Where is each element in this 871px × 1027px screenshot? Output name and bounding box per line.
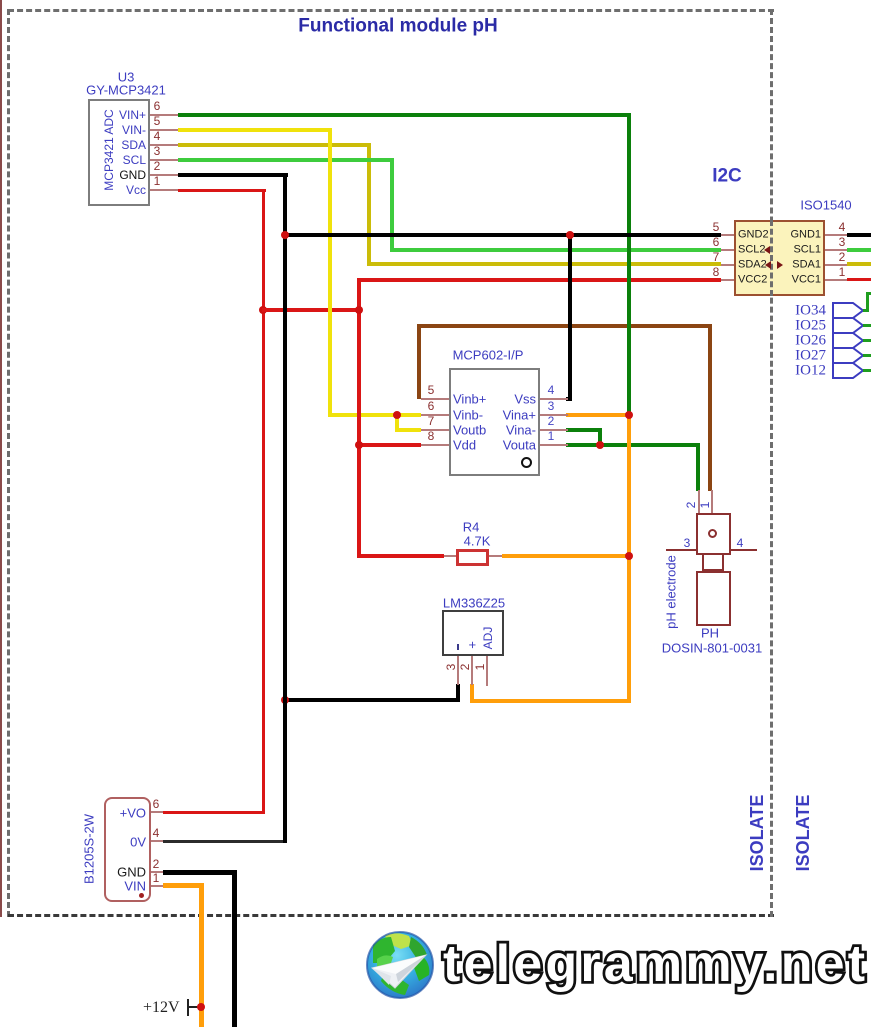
pH electrode pin 2 number xyxy=(690,504,692,506)
op-amp MCP602 box xyxy=(449,368,540,476)
wire red vertical x359 xyxy=(357,278,361,558)
R4 refdes xyxy=(470,526,472,528)
U3 pin 3 number xyxy=(156,150,158,152)
B1205S pin name VIN xyxy=(145,885,147,887)
wire orange vertical x629 xyxy=(627,413,631,703)
U3 pin name SDA xyxy=(145,144,147,146)
ISO1540 value label xyxy=(825,204,827,206)
ISO1540 pin name SDA2 xyxy=(737,264,739,266)
wire red horizontal y310 xyxy=(262,308,361,312)
MCP602 pin name Vina- xyxy=(535,429,537,431)
LM336 pin 1 stub xyxy=(486,656,488,686)
wire VIN- yellow horizontal xyxy=(178,128,332,132)
U3 pin name VIN+ xyxy=(145,114,147,116)
wire LM336 pin3 black vertical xyxy=(456,684,460,702)
LM336 pin minus label xyxy=(457,644,459,650)
ISO1540 pin 1 stub xyxy=(825,279,847,281)
B1205S pin 2 stub xyxy=(151,871,163,873)
pH electrode pin 3 number xyxy=(686,542,688,544)
MCP602 pin name Vouta xyxy=(535,444,537,446)
junction orange at x629 y556 xyxy=(625,552,633,560)
U3 pin name SCL xyxy=(145,159,147,161)
paper plane xyxy=(372,955,426,988)
MCP602 pin 5 number xyxy=(430,389,432,391)
U3 pin name VIN- xyxy=(145,129,147,131)
wire brown vertical x710 to pH pin1 xyxy=(708,324,712,491)
+12V label stub xyxy=(187,999,189,1016)
B1205S pin 6 number xyxy=(155,803,157,805)
wire GND1 black to edge xyxy=(847,233,871,237)
wire GND thick black vertical to bottom xyxy=(232,870,237,1027)
wire green Vina- horizontal xyxy=(566,428,602,432)
wire IO25 green xyxy=(863,324,871,327)
LM336 pin 2 number xyxy=(464,666,466,668)
label IO34 xyxy=(825,310,827,312)
wire VCC2 red horizontal y280 xyxy=(357,278,721,282)
wire SDA2 dark yellow horizontal xyxy=(367,262,721,266)
U3 pin 6 number xyxy=(156,105,158,107)
ISO1540 pin 1 number xyxy=(841,271,843,273)
MCP602 pin name Vdd xyxy=(452,444,454,446)
ISO1540 pin 3 stub xyxy=(825,249,847,251)
R4 value 4.7K xyxy=(476,540,478,542)
LM336 pin 2 stub xyxy=(471,656,473,685)
label IO25 xyxy=(825,325,827,327)
junction +12V on VIN wire xyxy=(197,1003,205,1011)
MCP602 pin 3 stub xyxy=(540,414,568,416)
MCP602 pin name Vss xyxy=(535,398,537,400)
B1205S pin 6 stub xyxy=(151,811,163,813)
U3 pin 2 number xyxy=(156,165,158,167)
pH electrode neck xyxy=(702,553,724,571)
junction GND bus at x570 xyxy=(566,231,574,239)
pH electrode pin 4 number xyxy=(739,542,741,544)
wire +VO red xyxy=(163,811,265,814)
U3 pin 5 number xyxy=(156,120,158,122)
ISO1540 pin 7 stub xyxy=(721,264,734,266)
MCP602 orientation circle xyxy=(521,457,532,468)
ISO1540 pin 2 stub xyxy=(825,264,847,266)
hierarchical pin IO26 flag xyxy=(832,332,865,349)
wire yellow to Vinb- xyxy=(328,413,421,417)
ISO1540 pin name GND1 xyxy=(820,234,822,236)
label ISOLATE (right) xyxy=(802,832,804,834)
ISO1540 pin name VCC2 xyxy=(737,279,739,281)
B1205S pin 2 number xyxy=(155,863,157,865)
MCP602 pin name Vinb- xyxy=(452,414,454,416)
pH electrode pin 1 stub xyxy=(711,490,713,531)
wire SCL bright green horizontal xyxy=(178,158,394,162)
pH electrode pin 4 line xyxy=(731,549,757,551)
title Functional module pH xyxy=(397,25,399,27)
ISO1540 pin 6 number xyxy=(715,241,717,243)
ISO1540 pin 4 number xyxy=(841,226,843,228)
U3 rotated label MCP3421 ADC xyxy=(108,149,110,151)
LM336 pin ADJ label xyxy=(487,637,489,639)
ISO1540 pin 6 stub xyxy=(721,249,734,251)
pH electrode value DOSIN-801-0031 xyxy=(711,647,713,649)
vref LM336Z25 box xyxy=(442,610,504,656)
B1205S pin 4 stub xyxy=(151,840,163,842)
wire brown horizontal y326 xyxy=(417,324,712,328)
R4 left pin xyxy=(444,555,456,557)
+12V connector line xyxy=(189,1006,201,1008)
dashed border left xyxy=(7,9,10,917)
ISO1540 pin name SCL1 xyxy=(820,249,822,251)
wire GND thick black horizontal xyxy=(163,870,237,875)
wire GND bus horizontal y235 xyxy=(283,233,721,237)
wire orange horizontal y701 xyxy=(470,699,631,703)
MCP602 pin 6 number xyxy=(430,405,432,407)
MCP602 pin 8 number xyxy=(430,435,432,437)
ISO1540 pin 8 stub xyxy=(721,279,734,281)
hierarchical pin IO27 flag xyxy=(832,347,865,364)
MCP602 pin 1 number xyxy=(550,435,552,437)
wire Vss black horizontal to pin stub xyxy=(566,397,572,401)
wire GND black horizontal from U3 xyxy=(178,173,288,177)
label +12V xyxy=(143,999,180,1017)
pH electrode pin 3 line xyxy=(666,549,696,551)
LM336 pin 3 stub xyxy=(457,656,459,685)
LM336 pin plus label xyxy=(471,644,473,646)
wire SDA dark yellow horizontal xyxy=(178,143,371,147)
wire VIN+ dark green horizontal xyxy=(178,113,631,117)
MCP602 pin 8 stub xyxy=(421,444,449,446)
wire orange from R4 right xyxy=(502,554,629,558)
wire IO12 green xyxy=(863,369,871,372)
MCP602 pin 1 stub xyxy=(540,444,568,446)
U3 refdes xyxy=(125,76,127,78)
MCP602 pin 4 stub xyxy=(540,398,568,400)
label ISOLATE (left) xyxy=(756,832,758,834)
U3 value GY-MCP3421 xyxy=(125,89,127,91)
U3 pin 3 stub xyxy=(150,159,178,161)
wire yellow feedback vertical xyxy=(395,413,399,432)
IC U3 box xyxy=(88,99,150,206)
B1205S pin name 0V xyxy=(145,841,147,843)
U3 pin 1 stub xyxy=(150,189,178,191)
resistor R4 body xyxy=(456,549,489,566)
junction Vinb- node xyxy=(393,411,401,419)
MCP602 pin 7 number xyxy=(430,420,432,422)
wire VIN- yellow vertical xyxy=(328,128,332,417)
wire SCL bright green vertical xyxy=(390,158,394,252)
junction red at x263 y310 xyxy=(259,306,267,314)
ISO1540 pin 3 number xyxy=(841,241,843,243)
pH electrode body xyxy=(696,571,731,626)
MCP602 pin 6 stub xyxy=(421,414,449,416)
dashed border bottom xyxy=(8,914,774,917)
wire yellow to Voutb xyxy=(395,428,421,432)
dashed border right (isolation barrier) xyxy=(770,9,773,917)
U3 pin 1 number xyxy=(156,180,158,182)
label IO12 xyxy=(825,370,827,372)
MCP602 value label xyxy=(487,354,489,356)
U3 pin 4 stub xyxy=(150,144,178,146)
junction green at x600 y445 xyxy=(596,441,604,449)
isolator ISO1540 box xyxy=(734,220,825,296)
B1205S pin 1 number xyxy=(155,877,157,879)
ISO1540 pin 5 number xyxy=(715,226,717,228)
wire Vcc red horizontal from U3 xyxy=(178,189,266,192)
ISO1540 pin 2 number xyxy=(841,256,843,258)
wire GND black to LM336 pin3 xyxy=(283,698,460,702)
wire 0V dark gray xyxy=(163,840,287,843)
ISO1540 SDA direction arrows xyxy=(764,260,784,270)
wire IO26 green xyxy=(863,339,871,342)
LM336 pin 3 number xyxy=(450,666,452,668)
label IO27 xyxy=(825,355,827,357)
hierarchical pin IO34 flag xyxy=(832,302,865,319)
left maroon edge line xyxy=(0,0,2,917)
ISO1540 pin 8 number xyxy=(715,271,717,273)
MCP602 pin 2 stub xyxy=(540,429,568,431)
B1205S pin name +VO xyxy=(145,812,147,814)
pH electrode rotated label xyxy=(670,591,672,593)
ISO1540 pin name VCC1 xyxy=(820,279,822,281)
wire VIN thick orange horizontal xyxy=(163,883,204,888)
junction GND at x284 y700 xyxy=(281,696,289,704)
LM336Z25 value label xyxy=(473,602,475,604)
wire SDA dark yellow vertical xyxy=(367,143,371,266)
wire GND black vertical x284 xyxy=(283,173,287,843)
ISO1540 pin name SCL2 xyxy=(737,249,739,251)
ISO1540 pin 4 stub xyxy=(825,234,847,236)
wire VCC1 red to edge xyxy=(847,278,871,281)
R4 right pin xyxy=(489,555,502,557)
pH electrode inner circle xyxy=(708,529,717,538)
MCP602 pin name Vinb+ xyxy=(452,398,454,400)
MCP602 pin 7 stub xyxy=(421,429,449,431)
wire VIN thick orange vertical to bottom xyxy=(199,883,204,1027)
wire IO34 green corner xyxy=(863,309,869,312)
wire IO27 green xyxy=(863,354,871,357)
pH electrode pin 1 number xyxy=(704,504,706,506)
junction red at x359 y310 xyxy=(355,306,363,314)
wire green vertical x600 xyxy=(598,428,602,447)
wire VIN+ dark green vertical xyxy=(627,113,631,417)
MCP602 pin 4 number xyxy=(550,389,552,391)
pH electrode top box xyxy=(696,513,731,555)
U3 pin 2 stub xyxy=(150,174,178,176)
hierarchical pin IO25 flag xyxy=(832,317,865,334)
ISO1540 pin name SDA1 xyxy=(820,264,822,266)
label I2C xyxy=(726,175,728,177)
hierarchical pin IO12 flag xyxy=(832,362,865,379)
B1205S-2W rotated refdes xyxy=(88,848,90,850)
dcdc B1205S-2W box xyxy=(104,797,151,902)
U3 pin 6 stub xyxy=(150,114,178,116)
wire Vcc red vertical x263 xyxy=(262,189,265,814)
wire orange vertical to LM336 pin2 xyxy=(470,684,474,703)
MCP602 pin name Voutb xyxy=(452,429,454,431)
wire green Vouta horizontal xyxy=(566,443,700,447)
U3 pin name Vcc xyxy=(145,189,147,191)
watermark text telegrammy.net xyxy=(443,934,868,994)
logo globe with paper plane xyxy=(365,929,437,1001)
junction orange/green at x629 y415 xyxy=(625,411,633,419)
dashed border top xyxy=(8,9,774,12)
pH electrode refdes PH xyxy=(709,632,711,634)
MCP602 pin 5 stub xyxy=(421,398,449,400)
B1205S pin 4 number xyxy=(155,832,157,834)
label IO26 xyxy=(825,340,827,342)
U3 pin name GND xyxy=(145,174,147,176)
wire green vertical x698 to pH pin2 xyxy=(696,443,700,491)
B1205S polarity dot xyxy=(139,893,144,898)
wire brown vertical x419 xyxy=(417,324,421,399)
MCP602 pin 3 number xyxy=(550,405,552,407)
isolation dashed line inside ISO1540 xyxy=(770,220,773,296)
ISO1540 pin name GND2 xyxy=(737,234,739,236)
pH electrode pin 2 stub xyxy=(698,490,700,514)
LM336 pin 1 number xyxy=(479,666,481,668)
U3 pin 4 number xyxy=(156,135,158,137)
wire red to Vdd y445 xyxy=(357,443,421,447)
ISO1540 pin 5 stub xyxy=(721,234,734,236)
wire SCL1 green to edge xyxy=(847,248,871,252)
wire SCL2 bright green horizontal xyxy=(390,248,721,252)
wire Vss black vertical x570 xyxy=(568,233,572,399)
ISO1540 pin 7 number xyxy=(715,256,717,258)
B1205S pin 1 stub xyxy=(151,885,163,887)
wire SDA1 dark yellow to edge xyxy=(847,262,871,266)
ISO1540 SCL direction arrow xyxy=(762,245,772,255)
B1205S pin name GND xyxy=(145,871,147,873)
junction red at x359 y445 xyxy=(355,441,363,449)
wire red to R4 y556 xyxy=(357,554,444,558)
U3 pin 5 stub xyxy=(150,129,178,131)
wire orange Vina+ to node xyxy=(566,413,631,417)
junction GND bus at x284 xyxy=(281,231,289,239)
MCP602 pin 2 number xyxy=(550,420,552,422)
MCP602 pin name Vina+ xyxy=(535,414,537,416)
